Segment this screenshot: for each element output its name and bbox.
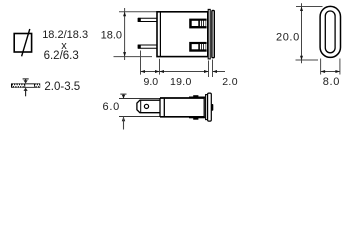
terminal pin 2 (bottom) — [138, 45, 157, 49]
svg-text:6.0: 6.0 — [103, 101, 120, 113]
tab hole — [144, 104, 148, 108]
bezel inner outline (front view) — [325, 11, 335, 53]
snap lug bottom — [189, 117, 205, 120]
body outline (side view) — [157, 12, 208, 57]
faston tab (top view) — [137, 100, 161, 113]
ext line B (body left) — [159, 59, 161, 75]
bezel cap (top view) — [208, 93, 212, 121]
svg-text:2.0: 2.0 — [222, 76, 238, 88]
svg-text:20.0: 20.0 — [276, 32, 300, 44]
dim line 9.0 / 19.0 — [141, 70, 209, 73]
flange (side view) — [208, 9, 210, 59]
ext line D (bezel front) — [212, 60, 214, 78]
snap lug top — [189, 95, 205, 98]
panel thickness arrows — [23, 79, 29, 96]
ext line top (18.0) — [119, 11, 157, 13]
tab fold line — [140, 100, 142, 113]
ext line bottom (20.0) — [296, 59, 319, 61]
ext line top (20.0) — [296, 6, 323, 8]
svg-text:2.0-3.5: 2.0-3.5 — [44, 81, 80, 93]
ext lines 8.0 — [320, 59, 322, 75]
cutout size label 18.2/18.3 x 6.2/6.3 — [42, 29, 88, 62]
dim line 18.0 — [123, 8, 126, 60]
dim 6.0 arrows — [120, 94, 126, 129]
ext line C (flange left) — [208, 61, 210, 78]
fuse clip 1 (upper, hatched) — [189, 19, 206, 29]
barrel outline (top view) — [160, 98, 204, 117]
bezel outer outline (front view) — [320, 6, 340, 57]
svg-text:8.0: 8.0 — [323, 76, 340, 88]
ext line lower (6.0) — [119, 116, 161, 118]
terminal pin 1 (top) — [138, 18, 157, 22]
cutout symbol (square with slash) — [14, 29, 31, 56]
bezel nub — [211, 104, 213, 111]
fuse clip 2 (lower, hatched) — [189, 42, 206, 52]
ext line upper (6.0) — [119, 98, 161, 100]
flange (top view) — [206, 95, 208, 120]
ext line A (pin tip) — [140, 51, 142, 75]
svg-text:9.0: 9.0 — [144, 76, 159, 88]
dim arrow 2.0 — [213, 70, 226, 73]
panel cross-section symbol — [11, 83, 40, 87]
dim line 8.0 — [321, 70, 340, 73]
dim line 20.0 — [300, 3, 303, 63]
svg-text:6.2/6.3: 6.2/6.3 — [44, 50, 79, 62]
body inner left line — [159, 12, 161, 57]
svg-text:19.0: 19.0 — [170, 76, 192, 88]
bezel cap (side view) — [212, 10, 214, 57]
svg-text:18.0: 18.0 — [101, 30, 122, 42]
ext line bottom (18.0) — [114, 56, 153, 58]
